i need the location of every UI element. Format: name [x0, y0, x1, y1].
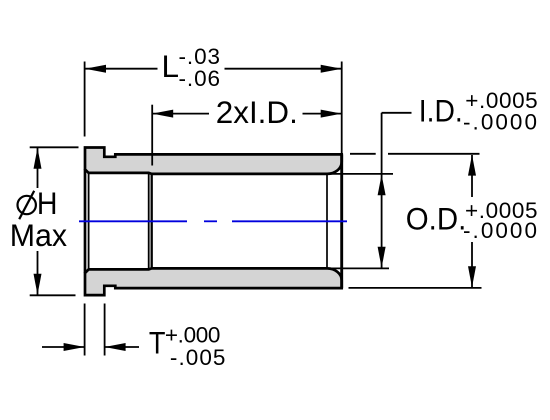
svg-text:-.06: -.06 — [179, 66, 221, 91]
svg-text:-.005: -.005 — [170, 345, 226, 370]
svg-text:2xI.D.: 2xI.D. — [216, 94, 298, 130]
svg-text:H: H — [37, 185, 58, 221]
svg-text:-.0000: -.0000 — [463, 218, 537, 243]
svg-text:I.D.: I.D. — [419, 92, 463, 128]
svg-text:L: L — [162, 48, 180, 84]
svg-text:+.000: +.000 — [165, 323, 221, 348]
svg-text:T: T — [149, 324, 166, 360]
svg-text:Max: Max — [10, 217, 68, 253]
svg-text:-.0000: -.0000 — [463, 109, 537, 134]
svg-text:O.D.: O.D. — [406, 201, 467, 237]
